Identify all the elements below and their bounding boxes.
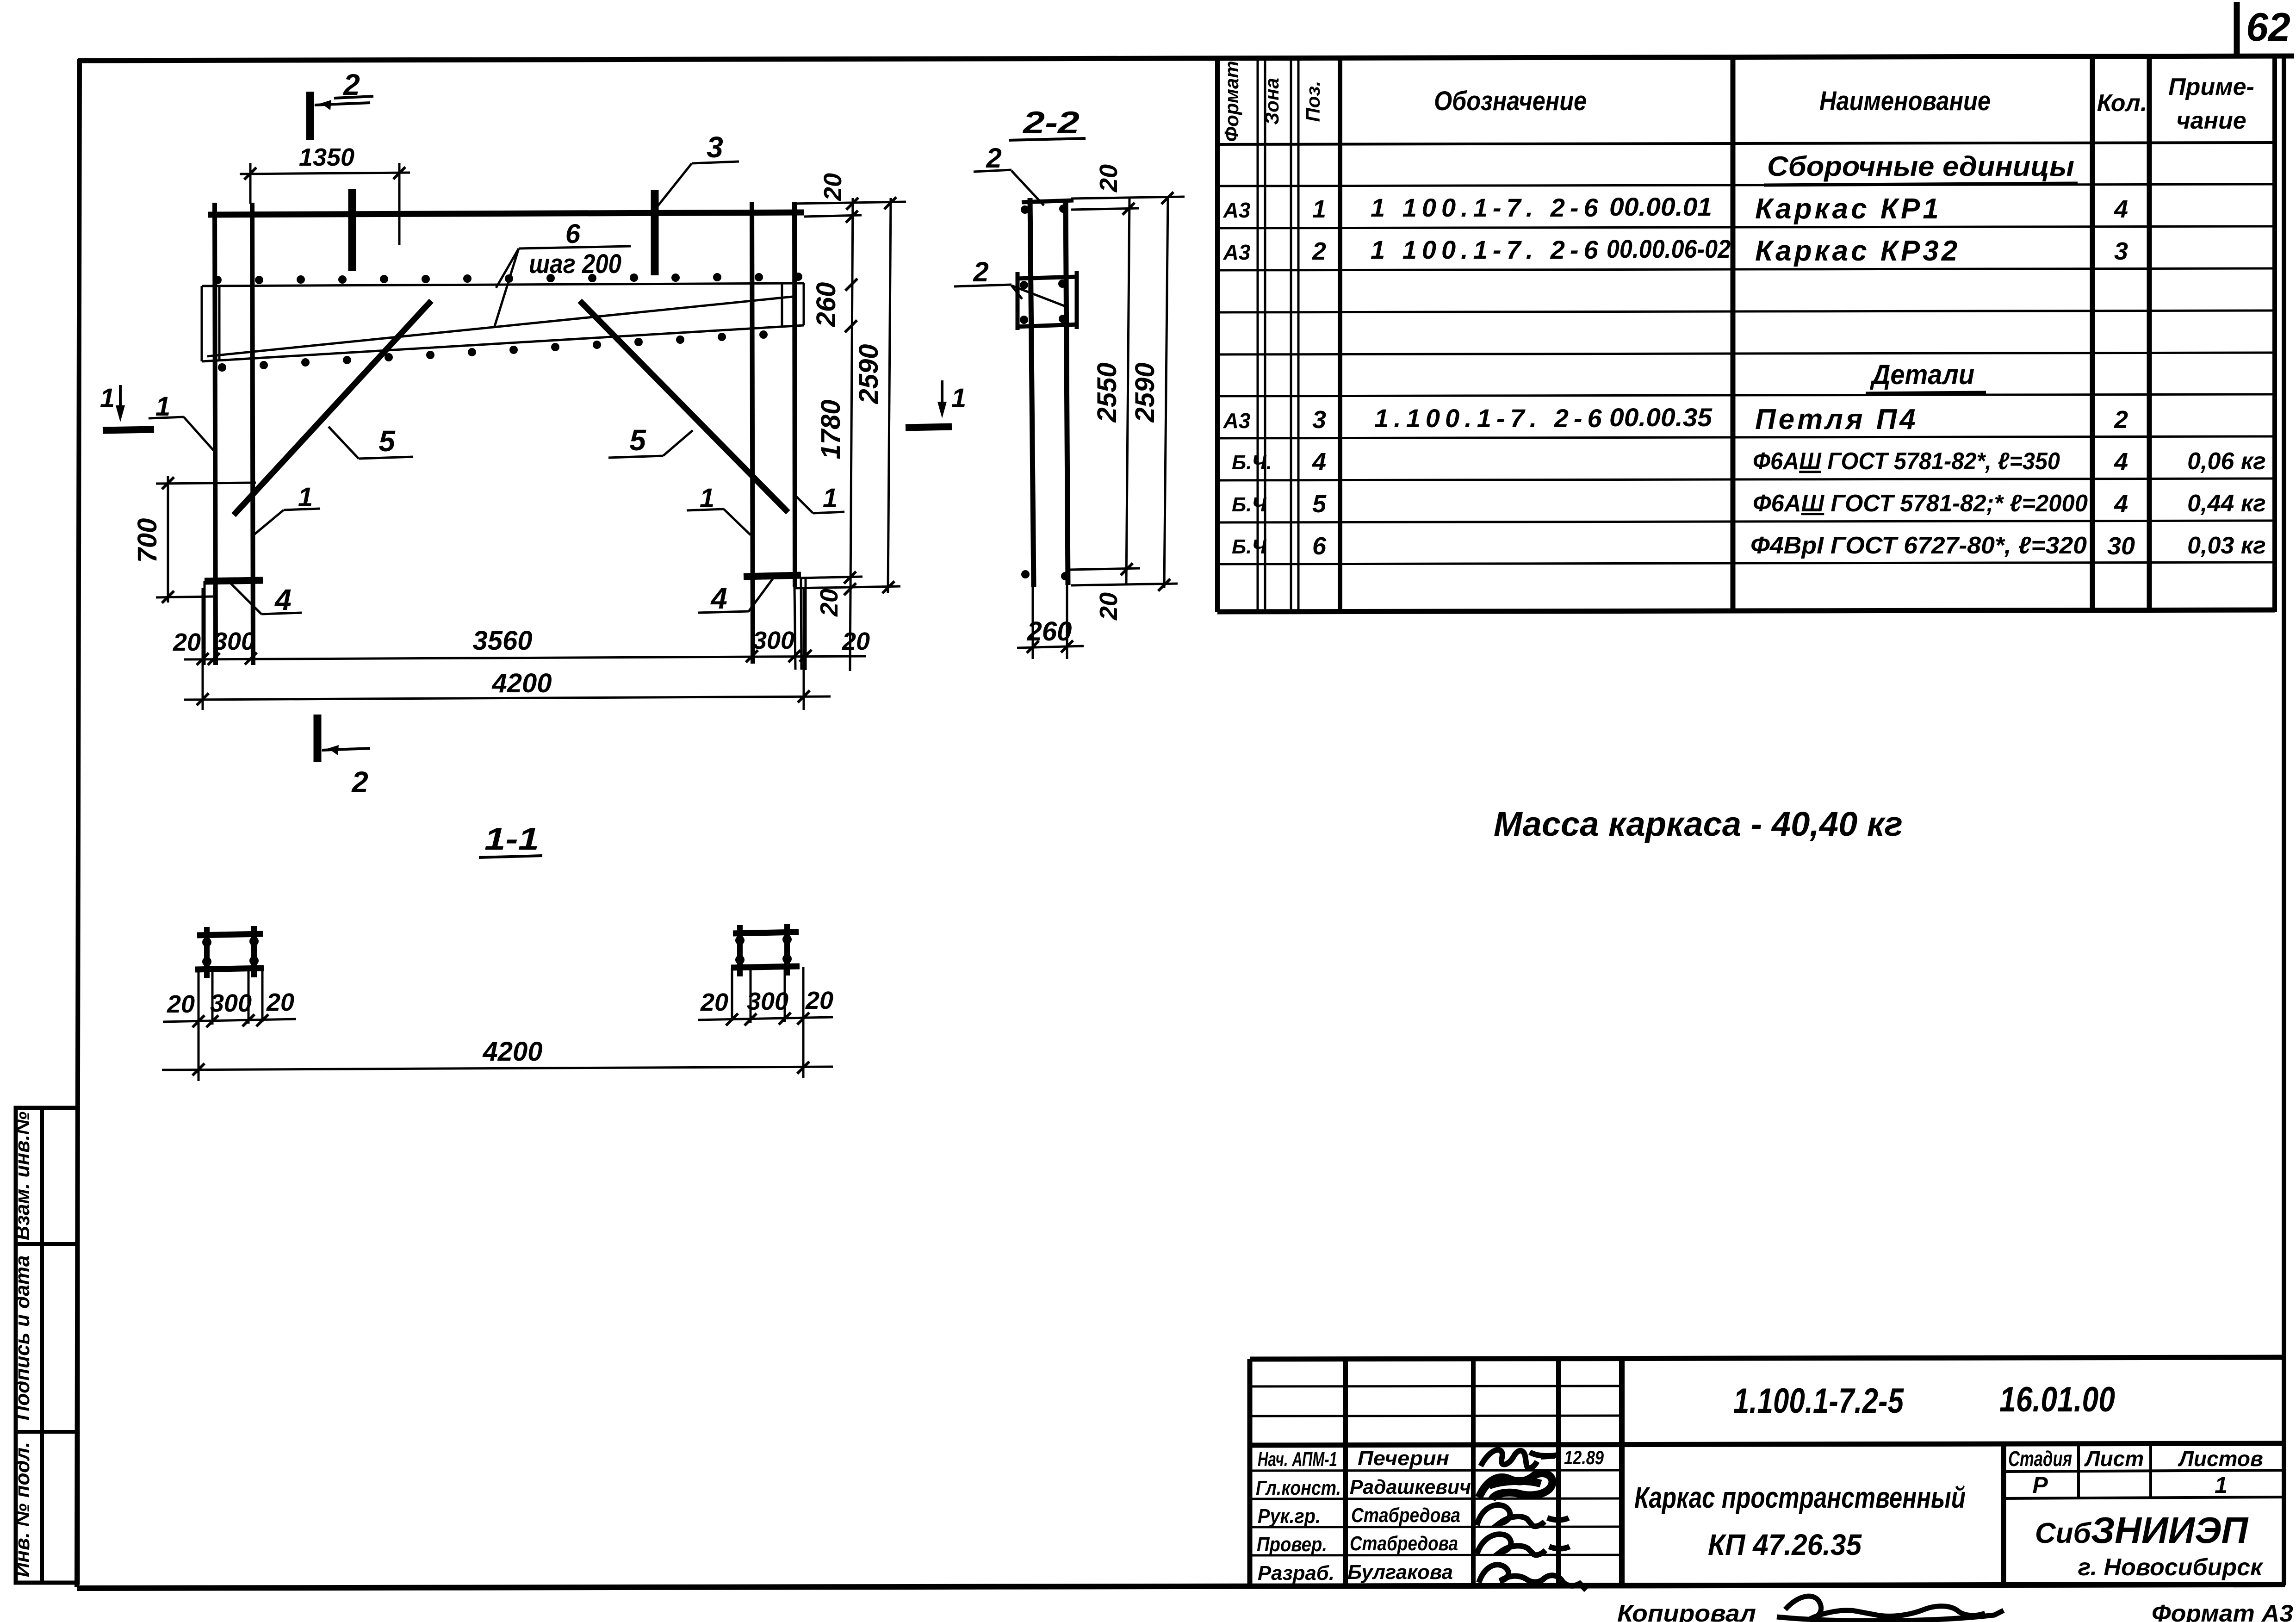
left square bottom bar — [195, 968, 264, 969]
page number box line — [2234, 2, 2240, 58]
dim 2550 ticks — [1123, 203, 1135, 215]
stirrup dots — [1020, 281, 1028, 289]
sec11 dim 4200 ticks — [192, 1063, 205, 1075]
label 4 left underline — [261, 613, 302, 614]
stamp cell line 1 — [16, 1242, 78, 1246]
svg-text:260: 260 — [1027, 616, 1072, 646]
sheet border left — [77, 59, 80, 1587]
dim 260 ext right — [1066, 585, 1068, 659]
left square left bar — [204, 927, 210, 978]
transverse bar dots bottom row — [218, 330, 768, 372]
svg-text:2-2: 2-2 — [1022, 105, 1080, 140]
svg-text:Стабредова: Стабредова — [1351, 1504, 1460, 1527]
foot bar pos4 right — [744, 575, 801, 577]
svg-text:А3: А3 — [1223, 240, 1251, 264]
dim 1350: extension left — [249, 163, 252, 204]
svg-text:Поз.: Поз. — [1302, 81, 1324, 122]
dim 260 line — [1017, 646, 1084, 648]
dim 2550 line — [1126, 198, 1129, 584]
svg-text:20: 20 — [819, 173, 847, 201]
svg-text:3560: 3560 — [472, 626, 532, 656]
dim 700: ext bottom — [156, 597, 213, 597]
svg-text:30: 30 — [2107, 532, 2135, 560]
svg-text:2590: 2590 — [1130, 362, 1160, 423]
svg-text:1: 1 — [951, 383, 966, 413]
svg-text:6: 6 — [1312, 532, 1327, 560]
svg-text:0,06 кг: 0,06 кг — [2187, 448, 2266, 475]
stamp inner divider vertical — [40, 1108, 44, 1583]
titleblock sig row line 4 — [1250, 1555, 1622, 1555]
beam outline right cap — [803, 283, 805, 325]
svg-text:3: 3 — [2114, 237, 2128, 265]
right square left bar — [737, 925, 743, 976]
titleblock thin row line b — [1250, 1416, 1622, 1416]
table row line 7 — [1217, 436, 2275, 438]
beam internal diagonal thin — [207, 297, 793, 356]
transverse bar dots top row — [213, 273, 802, 284]
beam outline left cap — [201, 286, 203, 361]
svg-text:Радашкевич: Радашкевич — [1350, 1476, 1471, 1498]
svg-text:А3: А3 — [1223, 198, 1251, 222]
right square ext inner a — [750, 969, 752, 1023]
svg-text:Копировал: Копировал — [1617, 1600, 1756, 1622]
sheet border bottom — [77, 1585, 2285, 1588]
diagonal bar pos5 left — [234, 301, 431, 515]
svg-text:1: 1 — [2215, 1472, 2228, 1498]
svg-text:1.100.1-7.2-5: 1.100.1-7.2-5 — [1733, 1381, 1904, 1421]
svg-text:Каркас КР32: Каркас КР32 — [1755, 235, 1960, 267]
table column line Кол/Примечание — [2147, 56, 2152, 612]
svg-text:1 100.1-7. 2-6: 1 100.1-7. 2-6 — [1371, 235, 1603, 264]
svg-text:0,44 кг: 0,44 кг — [2187, 490, 2266, 517]
table bottom edge — [1217, 610, 2275, 612]
svg-text:шаг 200: шаг 200 — [529, 249, 621, 279]
stirrup left tick — [1016, 272, 1020, 330]
svg-text:1: 1 — [100, 383, 115, 413]
beam outline bottom slanted — [202, 325, 804, 361]
bottom dots — [1021, 570, 1030, 578]
section mark 1 right: arrow line — [941, 380, 943, 403]
table column line Зона/Поз double — [1290, 58, 1292, 612]
label 1 a underline — [149, 417, 184, 418]
svg-text:300: 300 — [210, 989, 252, 1017]
table row line 6 — [1217, 394, 2275, 396]
table column line Поз/Обозначение — [1338, 57, 1342, 612]
TITLE-BLOCK — [1250, 1357, 2293, 1622]
svg-text:5: 5 — [379, 424, 396, 458]
svg-text:Лист: Лист — [2084, 1447, 2144, 1471]
foot outline left thin — [204, 581, 206, 665]
section title underline — [1009, 138, 1086, 140]
svg-text:Печерин: Печерин — [1358, 1447, 1449, 1470]
underline Детали — [1866, 392, 1986, 393]
right square outline left — [731, 968, 733, 1021]
titleblock col line date/doc — [1619, 1359, 1625, 1586]
label 4 right underline — [698, 611, 749, 613]
column bar 2-2 right — [1066, 199, 1068, 585]
label 1 c leader — [724, 509, 751, 535]
left square outline left — [198, 970, 200, 1023]
svg-text:Стадия: Стадия — [2008, 1447, 2072, 1471]
svg-text:12.89: 12.89 — [1564, 1447, 1604, 1468]
svg-text:г. Новосибирск: г. Новосибирск — [2078, 1554, 2264, 1581]
svg-text:Формат: Формат — [1221, 61, 1242, 142]
ext lines top sec22 — [1071, 197, 1185, 199]
svg-text:Стабредова: Стабредова — [1350, 1532, 1458, 1555]
dim 1350: extension right — [398, 163, 401, 245]
svg-text:20: 20 — [167, 990, 195, 1018]
right square outline right — [802, 967, 805, 1020]
svg-text:1 100.1-7. 2-6: 1 100.1-7. 2-6 — [1371, 193, 1603, 222]
ext line foot right end — [801, 578, 801, 670]
svg-text:5: 5 — [1312, 490, 1327, 518]
signature Печерин squiggle — [1481, 1450, 1558, 1468]
svg-text:300: 300 — [753, 627, 794, 654]
svg-text:20: 20 — [1095, 164, 1123, 193]
left square ext inner b — [248, 970, 250, 1024]
dim 2590 ticks sec22 — [1161, 192, 1173, 204]
titleblock col line sign/date — [1556, 1359, 1561, 1586]
svg-text:Б.Ч: Б.Ч — [1232, 535, 1266, 558]
dim 700: line — [167, 476, 169, 603]
dim 4200 line — [184, 696, 831, 700]
svg-text:4: 4 — [274, 583, 292, 616]
right dim chain line — [850, 198, 853, 671]
right chain ext lines — [793, 202, 906, 204]
column bar right inner — [752, 202, 753, 664]
label 1 d underline — [813, 512, 844, 513]
svg-text:5: 5 — [629, 423, 646, 457]
top chord bar pos3 — [208, 212, 804, 215]
sheet border top — [78, 56, 2294, 61]
label 2 mid underline — [954, 285, 1011, 286]
svg-text:3: 3 — [707, 131, 723, 164]
table row line 1 — [1217, 184, 2275, 186]
label 2 mid leader b — [1011, 286, 1064, 306]
sheet border right — [2282, 56, 2286, 1585]
titleblock col line stadia/list — [2077, 1444, 2080, 1498]
svg-text:Ф6АШ ГОСТ 5781-82*, ℓ=350: Ф6АШ ГОСТ 5781-82*, ℓ=350 — [1753, 448, 2060, 475]
section mark 1 left: bar — [103, 429, 154, 430]
table row line 2 — [1217, 226, 2275, 228]
column bar left inner — [252, 203, 253, 665]
svg-text:300: 300 — [747, 988, 788, 1015]
label 1 d leader — [796, 496, 813, 513]
label 6 leader a — [496, 249, 519, 288]
signature Булгакова squiggle — [1479, 1565, 1586, 1590]
table column line Обозначение/Наименование — [1731, 57, 1736, 612]
table row line 8 — [1217, 479, 2275, 480]
svg-text:А3: А3 — [1223, 409, 1251, 433]
svg-text:300: 300 — [213, 628, 255, 655]
dim 2590 line sec22 — [1164, 197, 1168, 588]
top tie dots — [1021, 205, 1029, 214]
bottom chain ext right — [805, 653, 807, 670]
svg-text:700: 700 — [132, 518, 162, 563]
svg-text:0,03 кг: 0,03 кг — [2187, 532, 2266, 559]
svg-text:Обозначение: Обозначение — [1434, 86, 1587, 116]
sec11 dim 4200 line — [162, 1067, 833, 1070]
titleblock col line name/sign — [1471, 1359, 1476, 1586]
column bar right outer — [794, 202, 795, 587]
label 5 right leader — [663, 430, 693, 456]
svg-text:00.00.35: 00.00.35 — [1609, 403, 1713, 432]
svg-text:1780: 1780 — [816, 399, 846, 459]
svg-text:Нач. АПМ-1: Нач. АПМ-1 — [1258, 1448, 1337, 1471]
svg-text:1: 1 — [155, 392, 170, 422]
svg-text:1: 1 — [1312, 195, 1326, 223]
label 1 b leader — [253, 510, 284, 535]
titleblock thin row line a — [1250, 1386, 1622, 1386]
right square dim line — [698, 1017, 833, 1020]
svg-text:62: 62 — [2246, 5, 2290, 50]
right chain ticks — [846, 198, 858, 210]
diagonal bar pos5 right — [580, 301, 788, 512]
table row line 10 — [1217, 562, 2275, 564]
dim 2590 ticks — [884, 197, 896, 209]
svg-text:2: 2 — [351, 765, 368, 799]
svg-text:4200: 4200 — [482, 1037, 542, 1067]
beam outline top — [202, 283, 804, 286]
sec11 dim 4200 ext right — [802, 1020, 805, 1078]
section mark 2 top: label underline — [334, 96, 373, 98]
svg-text:20: 20 — [700, 988, 728, 1016]
dim 700: ticks — [162, 477, 174, 489]
SECTION-2-2 — [954, 105, 1185, 659]
section mark 1 left: arrow line — [119, 385, 122, 407]
svg-text:1350: 1350 — [299, 143, 354, 171]
section title 1-1 underline — [479, 856, 542, 858]
svg-text:Кол.: Кол. — [2097, 90, 2147, 117]
svg-text:4: 4 — [710, 582, 727, 615]
svg-text:Р: Р — [2032, 1472, 2048, 1498]
svg-text:чание: чание — [2176, 107, 2246, 134]
signature Стабредова squiggle 2 — [1477, 1534, 1570, 1555]
svg-text:2: 2 — [1312, 237, 1326, 265]
LEFT-STAMPS — [11, 1108, 78, 1583]
titleblock left edge — [1247, 1359, 1253, 1586]
ext lines bottom sec22 — [1070, 568, 1140, 570]
top tie bar — [1022, 200, 1074, 202]
label 6 leader b — [494, 249, 519, 328]
foot bar pos4 left — [205, 580, 263, 581]
stirrup tick B pos3 target — [651, 190, 659, 275]
svg-text:3: 3 — [1312, 406, 1326, 434]
table right edge — [2272, 56, 2277, 612]
dim 4200 ext left — [202, 588, 204, 710]
svg-text:Взам. инв.№: Взам. инв.№ — [11, 1112, 34, 1240]
dim 1350: line — [240, 173, 410, 174]
left square top bar — [197, 934, 263, 935]
svg-text:Ф4ВрI ГОСТ 6727-80*, ℓ=320: Ф4ВрI ГОСТ 6727-80*, ℓ=320 — [1750, 532, 2087, 559]
left square outline right — [261, 969, 264, 1022]
table column line Наименование/Кол — [2090, 56, 2095, 612]
svg-text:1.100.1-7. 2-6: 1.100.1-7. 2-6 — [1374, 404, 1607, 433]
dim 1350: ticks — [244, 168, 256, 180]
svg-text:Булгакова: Булгакова — [1347, 1561, 1453, 1584]
titleblock sig row line 2 + stadia value line — [1250, 1498, 1622, 1499]
section mark 2 bottom: arrow line — [322, 748, 370, 750]
sec11 dim 4200 ext left — [198, 1023, 200, 1081]
svg-text:Б.Ч: Б.Ч — [1232, 493, 1266, 516]
label 1 a leader — [184, 417, 214, 451]
left square dim ticks — [192, 1015, 205, 1027]
label 1 b underline — [284, 509, 320, 510]
beam inner end line right — [781, 284, 783, 326]
table column line Формат/Зона double — [1257, 58, 1259, 612]
right square right bar — [784, 924, 790, 976]
svg-text:Каркас пространственный: Каркас пространственный — [1634, 1481, 1966, 1514]
stirrup tick A — [348, 189, 356, 271]
svg-text:20: 20 — [815, 589, 843, 617]
label 2 top leader — [1011, 171, 1044, 205]
svg-text:20: 20 — [173, 628, 201, 656]
svg-text:4: 4 — [1312, 448, 1326, 476]
svg-text:КП 47.26.35: КП 47.26.35 — [1708, 1528, 1862, 1561]
left square dim line — [163, 1019, 296, 1022]
table left edge — [1215, 58, 1220, 612]
stirrup bottom bar — [1016, 324, 1078, 327]
SECTION-1-1 — [162, 821, 833, 1081]
svg-text:4: 4 — [2114, 448, 2128, 476]
titleblock col line list/listov — [2149, 1444, 2152, 1498]
stamp cell line 2 — [16, 1430, 78, 1434]
svg-text:Сборочные единицы: Сборочные единицы — [1767, 151, 2074, 182]
svg-text:Подпись и дата: Подпись и дата — [11, 1255, 34, 1421]
svg-text:20: 20 — [842, 628, 870, 655]
svg-text:Инв. № подл.: Инв. № подл. — [11, 1442, 34, 1577]
copier signature squiggle — [1777, 1596, 2004, 1621]
column bar 2-2 left — [1030, 198, 1034, 587]
stamp frame outline — [16, 1108, 78, 1583]
label 6 fraction line — [519, 246, 631, 249]
table row line 4 — [1217, 311, 2275, 312]
svg-text:4: 4 — [2114, 490, 2128, 518]
svg-text:4200: 4200 — [491, 668, 552, 698]
svg-text:1: 1 — [700, 483, 714, 513]
svg-text:2: 2 — [2114, 406, 2128, 434]
MASS-NOTE — [1494, 805, 1903, 843]
svg-text:Наименование: Наименование — [1819, 86, 1991, 116]
svg-text:20: 20 — [266, 988, 294, 1016]
dim 4200 ext right — [803, 588, 805, 710]
label 4 left leader — [230, 583, 261, 614]
table header bottom line — [1217, 143, 2275, 144]
label 5 right underline — [608, 456, 663, 458]
svg-text:1-1: 1-1 — [484, 821, 539, 857]
dim 2590 line — [888, 198, 891, 593]
titleblock mid thick line — [1250, 1443, 2284, 1445]
svg-text:Провер.: Провер. — [1257, 1533, 1327, 1556]
titleblock sig row line 1 + stadia header line — [1250, 1470, 1622, 1471]
section mark 2 top: tick — [306, 92, 314, 140]
svg-text:6: 6 — [565, 219, 581, 249]
svg-text:2: 2 — [343, 68, 360, 101]
svg-text:2590: 2590 — [854, 344, 884, 404]
dim 700: ext top — [156, 483, 256, 484]
table row line 5 — [1217, 353, 2275, 354]
right square dots — [735, 936, 745, 945]
label 1 c underline — [687, 509, 724, 510]
svg-text:260: 260 — [811, 282, 841, 328]
ext line from right outer bar — [794, 587, 795, 670]
foot outline right thin — [805, 578, 807, 653]
bottom chain ticks — [197, 653, 209, 665]
label 2 mid leader a — [1011, 286, 1022, 299]
dim 260 ext left — [1032, 587, 1034, 659]
SPEC-TABLE — [1217, 56, 2275, 612]
svg-text:20: 20 — [1095, 592, 1123, 621]
titleblock top edge — [1250, 1357, 2284, 1359]
dim 4200 ticks — [197, 693, 209, 705]
svg-text:Формат А3: Формат А3 — [2152, 1600, 2293, 1622]
right square top bar — [733, 932, 799, 933]
svg-text:2: 2 — [986, 143, 1001, 174]
svg-text:Листов: Листов — [2178, 1447, 2263, 1471]
section mark 1 right: bar — [906, 427, 952, 428]
titleblock sig row line 3 — [1250, 1527, 1622, 1527]
svg-text:1: 1 — [823, 483, 838, 513]
svg-text:2550: 2550 — [1092, 362, 1122, 423]
right square ext inner b — [784, 968, 786, 1022]
svg-text:Масса каркаса - 40,40 кг: Масса каркаса - 40,40 кг — [1494, 805, 1903, 843]
svg-text:16.01.00: 16.01.00 — [1999, 1380, 2115, 1419]
label 5 left underline — [359, 457, 413, 459]
stirrup top bar — [1016, 277, 1078, 279]
label 5 left leader — [329, 427, 359, 459]
svg-text:1: 1 — [298, 482, 313, 512]
svg-text:2: 2 — [973, 256, 988, 287]
label 4 right leader — [749, 578, 774, 611]
signature Радашкевич blob — [1479, 1473, 1552, 1499]
left square right bar — [251, 926, 257, 977]
svg-text:00.00.06-02: 00.00.06-02 — [1607, 234, 1731, 263]
svg-text:Петля П4: Петля П4 — [1755, 404, 1918, 435]
svg-text:Разраб.: Разраб. — [1258, 1562, 1334, 1585]
titleblock col line stadia area — [2001, 1444, 2006, 1586]
svg-text:00.00.01: 00.00.01 — [1609, 192, 1712, 221]
underline Сборочные единицы — [1764, 183, 2078, 185]
bottom dim chain line — [184, 656, 866, 659]
left square ext inner a — [211, 971, 214, 1025]
svg-text:Приме-: Приме- — [2168, 74, 2254, 100]
svg-text:Зона: Зона — [1261, 78, 1283, 124]
svg-text:Каркас КР1: Каркас КР1 — [1755, 193, 1942, 225]
beam inner end line left — [218, 286, 221, 360]
right square dim ticks — [726, 1013, 738, 1025]
label 3 underline — [692, 162, 739, 163]
titleblock col line role/name — [1343, 1359, 1348, 1586]
signature Стабредова squiggle 1 — [1477, 1505, 1569, 1526]
svg-text:Детали: Детали — [1869, 359, 1974, 390]
ELEVATION — [100, 68, 966, 799]
column bar left outer — [215, 203, 216, 665]
section mark 2 bottom: tick — [314, 715, 322, 762]
section mark 2 top: arrow line — [315, 103, 370, 105]
right square bottom bar — [731, 966, 800, 968]
svg-text:20: 20 — [805, 987, 833, 1014]
svg-text:4: 4 — [2114, 195, 2128, 223]
svg-text:Рук.гр.: Рук.гр. — [1258, 1505, 1321, 1528]
left square dots — [202, 938, 211, 947]
svg-text:Б.Ч.: Б.Ч. — [1232, 451, 1272, 474]
label 3 leader — [657, 163, 692, 207]
svg-text:Гл.конст.: Гл.конст. — [1256, 1477, 1341, 1499]
dim 260 ticks — [1027, 641, 1039, 653]
stirrup right tick — [1075, 271, 1079, 329]
svg-text:Ф6АШ ГОСТ 5781-82;* ℓ=2000: Ф6АШ ГОСТ 5781-82;* ℓ=2000 — [1753, 490, 2088, 517]
table row line 3 — [1217, 268, 2275, 270]
